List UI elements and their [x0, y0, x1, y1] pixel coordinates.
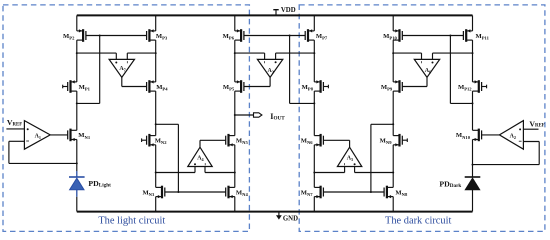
- transistor MP2: [77, 29, 86, 42]
- wire left chain x=76.8 (VDD rail to MP2 source): [76, 15, 78, 31]
- op-amp A6: [414, 53, 439, 77]
- stub A7 output: [121, 77, 123, 86]
- transistor MN6: [314, 134, 323, 147]
- photodiode PD_Dark: [465, 177, 481, 212]
- wire chain x=234.8 (MP6 to MP5): [234, 40, 236, 82]
- wire VREF to A2 + input: [523, 128, 538, 130]
- A6 + mark: [432, 62, 434, 64]
- gate wire MP10-MP11: [402, 35, 463, 37]
- wire chain x=393.2 (MP10 to MP9): [392, 40, 394, 82]
- svg-text:A7: A7: [119, 66, 125, 73]
- A7 - mark: [126, 61, 128, 63]
- transistor MN3: [156, 186, 165, 199]
- wire A5 output to MN6 gate: [323, 139, 349, 141]
- svg-text:A2: A2: [510, 134, 516, 141]
- A1 + mark: [27, 128, 29, 130]
- op-amp A4: [188, 147, 212, 172]
- transistor MP12: [473, 80, 487, 93]
- wire A2 feedback to PD node: [473, 164, 540, 166]
- wire right chain (MP11 to MP12): [472, 40, 474, 82]
- GND rail (bottom): [77, 211, 473, 213]
- VDD rail (top): [77, 14, 473, 16]
- op-amp A7: [109, 53, 134, 77]
- light circuit dashed box: [3, 5, 249, 232]
- A2 - mark: [519, 140, 522, 142]
- wire A1 feedback vertical: [8, 141, 10, 163]
- transistor MN10: [473, 129, 482, 142]
- svg-text:VDD: VDD: [281, 7, 296, 14]
- A3 + mark: [275, 61, 277, 63]
- op-amp A1: [24, 121, 50, 150]
- wire chain x=234.8 (MN4 to GND rail): [234, 197, 236, 212]
- wire A6 left input: [393, 52, 421, 54]
- transistor MP8: [314, 80, 328, 93]
- gate wire MP6-MP7: [244, 35, 305, 37]
- transistor MP6: [235, 29, 244, 42]
- wire A7 left input: [77, 52, 117, 54]
- gate tie wire MN3-MN4: [165, 191, 226, 193]
- transistor MP7: [305, 29, 314, 42]
- wire A3 output to MP5 gate: [244, 86, 270, 88]
- svg-text:The dark circuit: The dark circuit: [385, 216, 451, 227]
- wire chain x=393.2 (rail to MP10): [392, 15, 394, 31]
- wire right chain x=472.5 (rail to MP11): [472, 15, 474, 31]
- wire chain x=155.7 (MN2 to MN3): [155, 145, 157, 188]
- op-amp A2: [499, 121, 523, 150]
- bias vertical middle x=289.6: [289, 36, 291, 104]
- A3 - mark: [264, 61, 266, 63]
- svg-text:A3: A3: [268, 68, 274, 75]
- branch junction y=124.3 right: [371, 123, 393, 125]
- wire chain x=314.3 (MN6 to MN7): [313, 145, 315, 188]
- stub A5 output: [349, 140, 351, 147]
- wire A3 right input: [276, 52, 315, 54]
- transistor MN4: [226, 186, 235, 199]
- wire IOUT tap: [235, 114, 254, 116]
- transistor MN2: [142, 134, 156, 147]
- transistor MP5: [235, 80, 244, 93]
- wire right chain (MN10 source to PD_Dark): [472, 140, 474, 178]
- svg-text:A5: A5: [347, 155, 353, 162]
- wire chain x=234.8 (rail to MP6): [234, 15, 236, 31]
- wire chain x=314.3 (rail to MP7): [313, 15, 315, 31]
- op-amp A3: [257, 53, 282, 77]
- wire chain x=393.2 (MN9 to MN8): [392, 145, 394, 188]
- IOUT terminal flag: [254, 113, 262, 117]
- wire A5 right input: [355, 172, 394, 174]
- wire A1 - input: [9, 140, 25, 142]
- wire A7 output to MP4 gate: [122, 86, 147, 88]
- branch junction y=124.3 left: [156, 123, 179, 125]
- wire A2 feedback vertical: [538, 142, 540, 165]
- svg-text:A6: A6: [425, 68, 431, 75]
- wire left chain (MP2 drain to MP1 source): [76, 40, 78, 82]
- wire left chain (MP1 drain to MN1 drain): [76, 91, 78, 130]
- wire A4 output to MN5 gate: [200, 139, 226, 141]
- GND symbol: [276, 212, 282, 220]
- op-amp A5: [337, 147, 361, 172]
- dark circuit dashed box: [299, 5, 545, 232]
- wire chain x=393.2 (MP9 to MN9): [392, 91, 394, 136]
- tie vertical x=370.9: [370, 124, 372, 192]
- wire A2 output to MN10 gate: [482, 134, 500, 136]
- wire right chain (MP12 to MN10): [472, 91, 474, 130]
- wire chain x=314.3 (MP8 to MN6): [313, 91, 315, 136]
- tie vertical x=178.4: [177, 124, 179, 192]
- A2 + mark: [519, 128, 521, 130]
- node merge right y=103.4: [450, 102, 472, 104]
- svg-text:A4: A4: [197, 155, 204, 162]
- bias vertical left x=99.7: [99, 36, 101, 104]
- transistor MP4: [147, 80, 156, 93]
- transistor MN7: [314, 186, 323, 199]
- wire chain x=393.2 (MN8 to GND rail): [392, 197, 394, 212]
- wire A4 left input: [156, 172, 195, 174]
- A4 - mark: [204, 163, 206, 165]
- wire A4 right input: [205, 172, 235, 174]
- wire left chain (MN1 source to PD_Light): [76, 140, 78, 172]
- wire A1 feedback to PD node: [9, 162, 77, 164]
- transistor MP10: [393, 29, 402, 42]
- wire A6 output to MP9 gate: [402, 86, 427, 88]
- transistor MP3: [147, 29, 156, 42]
- transistor MP1: [63, 80, 77, 93]
- transistor MN1: [68, 129, 77, 142]
- gate tie wire MN7-MN8: [323, 191, 384, 193]
- wire chain x=234.8 (MP5 to MN5 via IOUT node): [234, 91, 236, 136]
- stub A3 output: [269, 77, 271, 86]
- wire chain x=155.7 (MP3 to MP4): [155, 40, 157, 82]
- transistor MN9: [393, 134, 407, 147]
- wire chain x=314.3 (MN7 to GND rail): [313, 197, 315, 212]
- wire A7 right input: [127, 52, 155, 54]
- VDD symbol: [273, 10, 278, 16]
- A1 - mark: [26, 140, 29, 142]
- wire VREF to A1 + input: [6, 128, 24, 130]
- wire chain x=155.7 (MP4 to MN2): [155, 91, 157, 136]
- wire A5 left input: [314, 172, 344, 174]
- wire A3 left input: [235, 52, 265, 54]
- node merge middle y=103.4: [290, 102, 315, 104]
- A4 + mark: [194, 163, 196, 165]
- A7 + mark: [115, 62, 117, 64]
- transistor MN5: [226, 134, 235, 147]
- transistor MP11: [463, 29, 472, 42]
- gate wire MP2-MP3: [86, 35, 147, 37]
- wire A2 - input: [523, 141, 539, 143]
- stub A4 output: [199, 140, 201, 147]
- node merge left y=103.4: [77, 102, 100, 104]
- wire chain x=234.8 (MN5 to MN4): [234, 145, 236, 188]
- svg-text:A1: A1: [35, 134, 41, 141]
- transistor MP9: [393, 80, 402, 93]
- photodiode PD_Light: [69, 171, 85, 212]
- A6 - mark: [421, 61, 423, 63]
- wire chain x=155.7 (rail to MP3): [155, 15, 157, 31]
- A5 - mark: [344, 163, 346, 165]
- wire chain x=314.3 (MP7 to MP8): [313, 40, 315, 82]
- transistor MN8: [384, 186, 393, 199]
- stub A6 output: [426, 77, 428, 86]
- svg-text:GND: GND: [283, 215, 298, 222]
- svg-text:The light circuit: The light circuit: [98, 216, 165, 227]
- A5 + mark: [354, 163, 356, 165]
- wire A1 output to MN1 gate: [50, 134, 67, 136]
- wire A6 right input: [433, 52, 473, 54]
- wire chain x=155.7 (MN3 to GND rail): [155, 197, 157, 212]
- bias vertical right x=450.4: [449, 36, 451, 104]
